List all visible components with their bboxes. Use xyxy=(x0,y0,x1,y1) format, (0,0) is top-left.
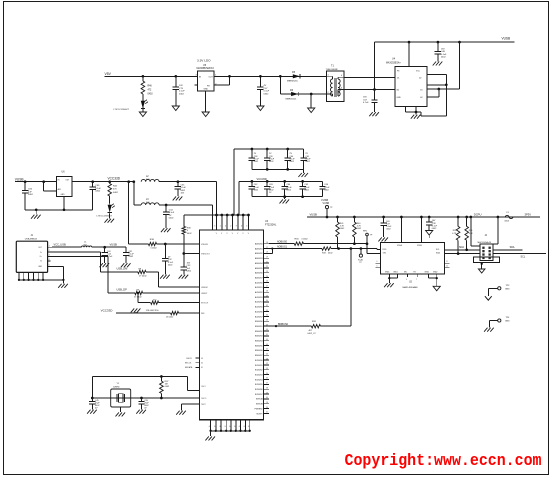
svg-text:36: 36 xyxy=(266,407,268,409)
resistor R26 4.7K xyxy=(465,217,474,250)
junction U5 output xyxy=(228,75,231,78)
svg-text:V5V: V5V xyxy=(105,72,112,76)
svg-text:0.1uF: 0.1uF xyxy=(169,212,175,214)
ground below U6 rail xyxy=(31,210,41,219)
net VCC33D row2 label xyxy=(257,177,267,181)
net USB_DM label xyxy=(117,267,143,271)
wire J4 shield ground xyxy=(481,263,483,269)
svg-text:G2: G2 xyxy=(420,97,423,99)
svg-text:ACBUS2: ACBUS2 xyxy=(255,291,263,294)
junction U6 adj feedback xyxy=(42,180,45,183)
wire J1 ground pin to bus xyxy=(52,266,63,280)
svg-text:BDBUS2: BDBUS2 xyxy=(255,331,263,333)
svg-text:OSCO: OSCO xyxy=(201,398,207,400)
wire BDBUS0 to vertical xyxy=(321,325,351,327)
ground below D10 xyxy=(105,214,115,223)
svg-text:FT2232HL: FT2232HL xyxy=(265,224,277,227)
test point RFI1 xyxy=(363,231,373,244)
svg-text:54: 54 xyxy=(266,373,268,375)
wire R36 bottom net riser xyxy=(183,234,185,267)
svg-text:4: 4 xyxy=(406,279,407,281)
wire U5 feedback loop xyxy=(214,76,230,85)
pin names IC left inside xyxy=(201,244,211,406)
svg-text:EECS: EECS xyxy=(187,358,193,360)
ground below C47 xyxy=(257,106,264,111)
ground below isolator right xyxy=(433,278,440,291)
wire isolator VDDB riser xyxy=(420,216,423,243)
wire BDBUS0 xyxy=(269,325,312,327)
net VUSB label at L1 xyxy=(110,243,118,247)
ground below TP3 xyxy=(485,296,492,300)
wire R38 to IC xyxy=(157,243,200,245)
svg-text:0 0402: 0 0402 xyxy=(151,247,158,249)
wire U4 right pin1 loop xyxy=(427,75,446,85)
capacitor C66 xyxy=(319,181,330,196)
wire ADBUS1 second pin loop xyxy=(269,247,274,253)
svg-text:SI/WUA: SI/WUA xyxy=(256,398,263,401)
svg-text:28: 28 xyxy=(266,402,268,404)
svg-text:ACBUS7: ACBUS7 xyxy=(255,315,263,318)
capacitor C55 xyxy=(90,182,102,210)
svg-text:31: 31 xyxy=(266,412,268,414)
svg-text:0402_C2: 0402_C2 xyxy=(308,333,317,335)
wire U4 top pin riser xyxy=(408,42,410,66)
test point VUSB TP xyxy=(323,202,334,218)
ground below D3 xyxy=(139,110,146,117)
pin number top xyxy=(220,226,221,228)
svg-text:GND: GND xyxy=(61,194,66,196)
junction U4 ground xyxy=(415,111,418,114)
capacitor C37 xyxy=(380,217,392,237)
wire IC top power bus xyxy=(217,214,249,216)
wire SCL isolator to J4 xyxy=(445,253,480,255)
pin names IC top xyxy=(216,233,250,235)
svg-text:BCBUS4: BCBUS4 xyxy=(255,379,263,381)
resistor R50 16 xyxy=(166,311,179,318)
wire T1 secondary top to U4 xyxy=(344,76,395,78)
crystal Y1 12MHz xyxy=(111,383,131,407)
junction bottom rail gnd xyxy=(35,208,38,211)
wire USB_DP xyxy=(52,256,135,293)
svg-text:MAX8887EZK33: MAX8887EZK33 xyxy=(197,67,215,70)
svg-text:R29: R29 xyxy=(453,230,456,232)
svg-text:ACBUS6: ACBUS6 xyxy=(255,310,263,313)
wire J1 right pins xyxy=(48,245,52,266)
svg-text:USB-MINI-B: USB-MINI-B xyxy=(25,239,38,241)
junction R40 rail xyxy=(353,216,356,219)
wire R36 net to IC pin xyxy=(184,253,200,255)
svg-text:6: 6 xyxy=(241,226,242,228)
transformer T1 xyxy=(326,65,344,102)
junction SCL R29 xyxy=(457,252,460,255)
net VUSB rail label xyxy=(310,212,318,216)
svg-text:VCC33D: VCC33D xyxy=(101,308,114,312)
svg-text:D2: D2 xyxy=(419,77,421,79)
svg-text:VCC33D: VCC33D xyxy=(257,177,267,181)
svg-text:VUSB: VUSB xyxy=(15,178,24,182)
svg-text:0402: 0402 xyxy=(179,93,185,95)
svg-text:16V: 16V xyxy=(363,97,367,99)
svg-text:VUSB: VUSB xyxy=(310,212,318,216)
junction C48 xyxy=(437,41,440,44)
wire IC top pin xyxy=(247,214,250,230)
resistor R37 1M xyxy=(160,377,170,399)
ground below C75 xyxy=(172,106,179,111)
capacitor C59 xyxy=(264,148,275,171)
svg-text:10V: 10V xyxy=(179,85,183,87)
wire L2 to IC riser xyxy=(159,182,216,215)
svg-text:55: 55 xyxy=(266,378,268,380)
pin number top xyxy=(236,226,237,228)
svg-text:1: 1 xyxy=(220,226,221,228)
wire ADBUS0 to isolator xyxy=(304,244,381,254)
capacitor C32 xyxy=(162,244,174,275)
wire VCC_USB xyxy=(52,243,81,248)
svg-text:57: 57 xyxy=(266,383,268,385)
wire Y1 case ground xyxy=(120,407,122,412)
junction cap row2 ground xyxy=(283,195,286,198)
wire V5V rail xyxy=(105,75,198,77)
wire IC right pin stubs xyxy=(255,242,269,415)
svg-text:0.1uF: 0.1uF xyxy=(181,187,187,189)
ground below TEST pin xyxy=(176,411,186,415)
junction J4 pin1 rail xyxy=(469,216,472,219)
capacitor C33 xyxy=(181,263,192,275)
capacitor C58 xyxy=(249,148,260,170)
op-amp U3 FT2232HL body xyxy=(200,220,277,420)
ground below C31 xyxy=(121,263,131,267)
capacitor C60 xyxy=(285,148,296,171)
capacitor C38 xyxy=(426,217,438,231)
wire IC top pin xyxy=(215,214,218,230)
svg-text:16V: 16V xyxy=(441,49,445,51)
svg-text:VCC33D: VCC33D xyxy=(108,177,121,181)
pin numbers IC bottom xyxy=(209,426,250,428)
net VUSB top label xyxy=(502,36,511,40)
svg-text:ACBUS1: ACBUS1 xyxy=(255,286,263,289)
svg-text:ACBUS5: ACBUS5 xyxy=(255,306,263,309)
resistor R10 472 xyxy=(151,300,159,305)
wire split to D6 branch xyxy=(279,76,281,94)
wire cap row2 bottom rail xyxy=(252,196,323,198)
svg-text:LTST-C190GKT: LTST-C190GKT xyxy=(114,109,130,111)
junction R36 net to IC xyxy=(182,252,185,255)
svg-text:12: 12 xyxy=(446,265,448,267)
svg-text:RSTOUT: RSTOUT xyxy=(201,303,209,305)
svg-text:BDBUS7: BDBUS7 xyxy=(255,355,263,357)
svg-text:VCC: VCC xyxy=(416,71,421,73)
svg-text:19: 19 xyxy=(266,256,268,258)
capacitor C34 xyxy=(163,205,175,228)
svg-text:17: 17 xyxy=(266,247,268,249)
capacitor C56 xyxy=(22,182,34,210)
capacitor C45 xyxy=(89,398,100,410)
inductor L3 xyxy=(141,199,159,205)
net 3P3V label xyxy=(525,212,532,216)
wire SDA isolator to J4 xyxy=(445,249,480,251)
wire isolator bottom right pins xyxy=(429,274,438,279)
diode D6 xyxy=(280,89,326,101)
svg-text:3P3V: 3P3V xyxy=(525,212,532,216)
ground below U4 xyxy=(411,112,421,119)
junction C37 rail xyxy=(382,216,385,219)
ground below C39 xyxy=(136,410,146,414)
svg-text:11: 11 xyxy=(446,261,448,263)
svg-text:4: 4 xyxy=(225,226,226,228)
svg-text:2: 2 xyxy=(328,92,329,94)
fuse F1 xyxy=(505,212,514,223)
svg-text:9: 9 xyxy=(236,226,237,228)
op-amp U6 regulator xyxy=(56,171,72,197)
svg-text:BCBUS2: BCBUS2 xyxy=(255,370,263,372)
svg-text:5: 5 xyxy=(246,226,247,228)
junction R29 rail xyxy=(457,216,460,219)
junction C44 xyxy=(103,246,106,249)
wire U6 adj feedback xyxy=(44,182,57,192)
svg-text:USB_DM: USB_DM xyxy=(117,267,128,271)
op-amp U5 regulator 3.3V LDO xyxy=(195,59,218,92)
svg-text:1: 1 xyxy=(49,245,50,247)
svg-text:48: 48 xyxy=(266,358,268,360)
resistor R41 4.7K pullup xyxy=(336,217,345,249)
junction C47 xyxy=(259,75,262,78)
svg-text:BCBUS1: BCBUS1 xyxy=(255,365,263,367)
svg-text:5: 5 xyxy=(49,264,50,266)
wire cap row2 riser to IC bus xyxy=(238,181,240,215)
junction crystal bottom C45 xyxy=(91,397,94,400)
wire IC top pin xyxy=(220,214,223,230)
wire USB_DM xyxy=(52,252,138,272)
svg-text:0.1uF: 0.1uF xyxy=(264,91,270,93)
svg-text:30: 30 xyxy=(266,300,268,302)
svg-text:23: 23 xyxy=(266,271,268,273)
ground below C57 xyxy=(369,108,379,116)
svg-text:16V: 16V xyxy=(181,193,185,195)
svg-text:VREGIN: VREGIN xyxy=(201,244,209,246)
svg-text:12K 0402 R50: 12K 0402 R50 xyxy=(146,310,160,312)
junction U4 loop xyxy=(445,83,448,86)
wire divider to IC xyxy=(179,312,200,314)
connector J4 shield box xyxy=(473,257,499,263)
net VUSB mid label xyxy=(15,178,24,182)
junction C35 xyxy=(177,180,180,183)
wire RSTOUT tap xyxy=(137,292,151,303)
wire cap row2 top rail xyxy=(239,180,322,182)
ground below TP4 xyxy=(484,326,494,332)
wire J4 pin1 riser xyxy=(471,217,480,246)
svg-text:0 0402: 0 0402 xyxy=(302,239,309,241)
svg-text:ADJ: ADJ xyxy=(58,188,61,191)
wire RSTOUT to IC xyxy=(159,302,200,304)
svg-text:0402: 0402 xyxy=(113,192,119,194)
junction ADBUS1 vertical xyxy=(350,247,353,250)
svg-text:1: 1 xyxy=(328,74,329,76)
svg-text:SDA: SDA xyxy=(459,246,464,249)
svg-text:SDA: SDA xyxy=(510,246,515,249)
svg-text:BCBUS6: BCBUS6 xyxy=(255,389,263,391)
connector J1 mini-USB xyxy=(16,235,47,272)
svg-text:ADBUS0: ADBUS0 xyxy=(277,240,288,243)
svg-text:BDBUS6: BDBUS6 xyxy=(255,350,263,352)
wire R36 top to IC bus xyxy=(184,214,217,216)
junction crystal bottom C39 xyxy=(140,397,143,400)
ground below J4 xyxy=(478,269,485,273)
svg-text:0402: 0402 xyxy=(95,191,101,193)
svg-text:DCPU: DCPU xyxy=(474,212,482,216)
svg-text:SCA1: SCA1 xyxy=(358,258,363,261)
wire IC top pin xyxy=(226,214,229,230)
svg-text:2: 2 xyxy=(49,250,50,252)
svg-text:BCBUS3: BCBUS3 xyxy=(255,374,263,376)
svg-text:0.1uF: 0.1uF xyxy=(95,188,101,190)
junction secondary bottom xyxy=(373,88,376,91)
svg-text:BDBUS4: BDBUS4 xyxy=(255,341,263,343)
svg-text:BDBUS0: BDBUS0 xyxy=(255,321,263,323)
pin number top xyxy=(214,226,215,228)
svg-text:3: 3 xyxy=(214,226,215,228)
capacitor C31 xyxy=(123,247,135,263)
svg-text:MBR0520L: MBR0520L xyxy=(286,99,298,101)
capacitor C39 xyxy=(138,398,149,410)
svg-text:SCL: SCL xyxy=(521,256,526,259)
wire IC top pin xyxy=(242,214,245,230)
junction U4 top pin xyxy=(408,41,411,44)
wire SDA out right xyxy=(493,249,523,251)
ground below C33 xyxy=(179,275,189,279)
resistor R9 series DP xyxy=(134,291,143,298)
junction V5V-C75 xyxy=(174,75,177,78)
wire J1 shell pins to ground bus xyxy=(18,272,65,281)
capacitor C61 xyxy=(300,149,311,169)
junction crystal bottom R37 xyxy=(160,397,163,400)
svg-text:SI/WUB: SI/WUB xyxy=(256,404,263,406)
svg-text:4.7uF: 4.7uF xyxy=(363,102,369,104)
svg-text:0402: 0402 xyxy=(148,94,154,96)
ground below C38 xyxy=(426,231,433,239)
net SDA label left xyxy=(459,246,464,249)
test point TP3 GND xyxy=(488,285,510,296)
svg-text:BCBUS5: BCBUS5 xyxy=(255,384,263,386)
svg-text:ACBUS3: ACBUS3 xyxy=(255,296,263,299)
op-amp U4 MAX253 xyxy=(386,58,427,107)
junction C55 xyxy=(91,180,94,183)
junction U4 right rail tap xyxy=(458,41,461,44)
net VUSB row2 label xyxy=(321,198,328,202)
resistor R29 4.7K xyxy=(452,217,460,254)
net USB_DP label xyxy=(117,288,141,292)
wire crystal bottom line xyxy=(92,397,199,399)
svg-text:ADBUS6: ADBUS6 xyxy=(255,272,263,275)
wire VUSB top rail xyxy=(375,41,515,43)
resistor R31 BDBUS xyxy=(308,321,321,335)
svg-text:44: 44 xyxy=(266,344,268,346)
svg-text:58: 58 xyxy=(266,387,268,389)
ground cap row2 xyxy=(280,197,290,204)
svg-text:BDBUS1: BDBUS1 xyxy=(255,326,263,328)
svg-text:GND: GND xyxy=(505,321,510,323)
capacitor C64 xyxy=(282,180,293,198)
junction D6-ground xyxy=(310,93,313,96)
junction U4 pin crossing xyxy=(437,88,440,91)
svg-text:SUSP#: SUSP# xyxy=(256,413,263,415)
wire D6 node to ground xyxy=(310,94,312,108)
wire U5 ground pin xyxy=(205,91,207,112)
capacitor C47 xyxy=(257,76,270,106)
net SDA label right xyxy=(510,246,515,249)
ground below D6 node xyxy=(308,108,315,113)
net VCC33D divider label xyxy=(101,308,114,312)
pin number top xyxy=(246,226,247,228)
svg-text:GND: GND xyxy=(204,89,209,91)
resistor R8 series DM xyxy=(138,270,148,277)
net ADBUS0 label xyxy=(277,240,288,243)
wire isolator left lower stubs xyxy=(376,261,381,267)
svg-text:27 0402: 27 0402 xyxy=(139,275,147,277)
wire IC top pin xyxy=(237,214,240,230)
junction bottom rail U6 xyxy=(63,208,66,211)
svg-text:USB_DP: USB_DP xyxy=(117,288,128,292)
svg-text:3: 3 xyxy=(49,254,50,256)
svg-text:GND2: GND2 xyxy=(425,272,430,274)
wire ADBUS1 xyxy=(269,248,322,250)
svg-text:0.1uF: 0.1uF xyxy=(441,54,447,56)
svg-text:BCBUS0: BCBUS0 xyxy=(255,360,263,362)
svg-text:45: 45 xyxy=(266,349,268,351)
resistor R36 xyxy=(182,215,192,235)
svg-text:28: 28 xyxy=(266,290,268,292)
svg-text:0402: 0402 xyxy=(264,93,270,95)
capacitor C35 xyxy=(175,182,187,197)
svg-text:ADBUS0: ADBUS0 xyxy=(255,243,263,246)
LED D10 xyxy=(97,204,115,218)
junction C38 rail xyxy=(428,216,431,219)
svg-text:12MHz: 12MHz xyxy=(113,386,120,388)
ground stub on divider xyxy=(131,308,141,313)
svg-text:GND1: GND1 xyxy=(393,272,398,274)
ground below C35 xyxy=(173,196,183,200)
wire VUSB after L1 xyxy=(92,246,126,248)
svg-text:7: 7 xyxy=(416,279,417,281)
wire split to L3 xyxy=(134,182,141,205)
svg-text:D1: D1 xyxy=(397,77,399,79)
svg-text:VCC_USB: VCC_USB xyxy=(54,243,67,247)
svg-text:1uF: 1uF xyxy=(28,191,32,193)
junction ADBUS0 R40 xyxy=(353,242,356,245)
resistor R38 VREGIN xyxy=(148,239,157,249)
svg-text:61: 61 xyxy=(201,367,203,369)
svg-text:VUSB: VUSB xyxy=(502,36,511,40)
wire cap row1 bottom rail xyxy=(252,168,304,170)
resistor R34 xyxy=(294,239,308,246)
wire VCC33D riser down to R38 xyxy=(129,182,149,244)
wire T1 secondary bottom to U4 xyxy=(344,89,395,91)
svg-text:5: 5 xyxy=(377,265,378,267)
svg-text:52: 52 xyxy=(266,363,268,365)
wire U4 right pin to VUSB riser xyxy=(427,42,460,89)
svg-text:FLT: FLT xyxy=(414,272,417,274)
inductor L2 xyxy=(141,176,159,182)
svg-text:ACBUS4: ACBUS4 xyxy=(255,301,263,304)
svg-text:21: 21 xyxy=(266,261,268,263)
svg-text:33: 33 xyxy=(266,310,268,312)
capacitor C62 xyxy=(249,180,260,197)
net V5V label xyxy=(105,72,112,76)
capacitor C57 xyxy=(363,90,378,113)
svg-text:ADBUS1: ADBUS1 xyxy=(277,246,288,249)
wire VUSB to U6 xyxy=(15,181,56,183)
wire L3 to IC riser xyxy=(159,205,212,230)
svg-text:ACBUS0: ACBUS0 xyxy=(255,281,263,284)
